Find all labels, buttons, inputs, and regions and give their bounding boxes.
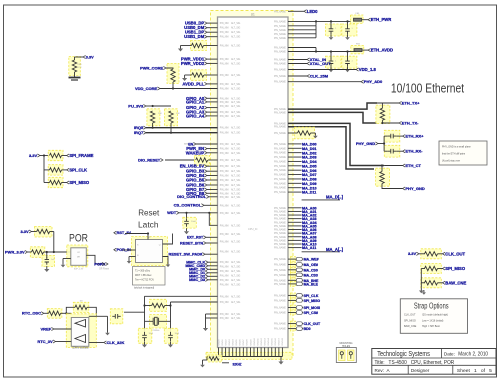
- wire: [44, 182, 50, 184]
- svg-text:ALT_SIG: ALT_SIG: [231, 196, 240, 199]
- svg-text:VDD_1.8: VDD_1.8: [359, 67, 377, 72]
- svg-text:CLK_OUT: CLK_OUT: [445, 251, 465, 256]
- capacitor C10: [42, 255, 55, 266]
- POR supervisor U2: [71, 248, 87, 265]
- svg-text:PIN_NM: PIN_NM: [220, 318, 229, 320]
- svg-text:PIN_NAME: PIN_NAME: [274, 108, 286, 111]
- svg-text:ALT_SIG: ALT_SIG: [231, 27, 240, 30]
- svg-text:ALT_SIG: ALT_SIG: [231, 184, 240, 187]
- capacitor C7: [183, 217, 197, 228]
- svg-text:XTAL_OUT: XTAL_OUT: [310, 61, 331, 66]
- capacitor C9: [164, 328, 178, 343]
- svg-text:OR Reset: OR Reset: [99, 267, 109, 270]
- wire: [330, 52, 332, 59]
- wire: [204, 74, 218, 76]
- svg-text:PIN_NAME: PIN_NAME: [274, 147, 286, 150]
- resistor R2: [167, 64, 179, 84]
- mounting hole MH1: [339, 350, 345, 361]
- resistor R15: [208, 355, 222, 362]
- resistor R21: [30, 247, 45, 257]
- wire: [152, 123, 154, 128]
- wire: [242, 348, 244, 357]
- svg-text:PIN_NAME: PIN_NAME: [274, 59, 286, 62]
- ferrite bead FB1: [351, 15, 364, 23]
- resistor R7: [48, 150, 63, 160]
- svg-text:Reset: Reset: [138, 208, 160, 218]
- net MA_D5: [288, 165, 302, 167]
- resistor R22 feedback: [73, 302, 89, 312]
- svg-text:PIN_NAME: PIN_NAME: [274, 299, 286, 302]
- svg-text:ALT_SIG: ALT_SIG: [231, 212, 240, 215]
- svg-text:32KHZ: 32KHZ: [233, 362, 243, 366]
- svg-text:(w/clock is stopped): (w/clock is stopped): [134, 286, 154, 289]
- svg-text:CLK_32K: CLK_32K: [107, 340, 125, 345]
- svg-text:PIN_NM: PIN_NM: [220, 63, 229, 65]
- svg-text:MA_OE#: MA_OE#: [304, 263, 318, 267]
- svg-text:ETH_TX-: ETH_TX-: [402, 120, 419, 125]
- net TX+: [399, 101, 402, 104]
- wire: [424, 282, 427, 284]
- svg-text:ALT_SIG: ALT_SIG: [231, 275, 240, 278]
- latch U3: [136, 240, 163, 263]
- svg-text:PIN_NM: PIN_NM: [220, 262, 229, 264]
- svg-text:PIN_NM: PIN_NM: [220, 285, 229, 287]
- resistor R4: [165, 109, 178, 126]
- net SPI_CLK: [291, 293, 296, 298]
- net CT: [403, 164, 406, 167]
- svg-text:ALT_SIG: ALT_SIG: [231, 266, 240, 269]
- net SPI_MISO: [291, 298, 296, 303]
- net MA_D0: [288, 143, 302, 145]
- resistor R1: [69, 57, 81, 76]
- ground: [423, 290, 425, 292]
- svg-text:PHY_GND is a small plane: PHY_GND is a small plane: [442, 146, 471, 149]
- wire: [228, 348, 230, 357]
- svg-text:PIN_NAME: PIN_NAME: [274, 132, 286, 135]
- svg-text:ALT_SIG: ALT_SIG: [231, 143, 240, 146]
- resistor R5: [194, 155, 209, 165]
- svg-text:ALT_SIG: ALT_SIG: [231, 313, 240, 316]
- net BAW_CNE: [443, 281, 446, 284]
- svg-text:ALT_SIG: ALT_SIG: [231, 241, 240, 244]
- net MA_A3: [288, 218, 302, 220]
- wire: [160, 88, 218, 90]
- wire: [363, 49, 369, 51]
- ground: [144, 342, 146, 345]
- svg-text:ALT_SIG: ALT_SIG: [231, 251, 240, 254]
- net SPI_MISO: [67, 181, 70, 184]
- svg-text:PIN_NAME: PIN_NAME: [274, 229, 286, 232]
- svg-text:March 2, 2010: March 2, 2010: [458, 352, 488, 358]
- svg-text:PIN_NM: PIN_NM: [220, 116, 229, 118]
- wire: [44, 169, 50, 171]
- net TX-: [399, 121, 402, 124]
- note box PHY_GND: [439, 141, 487, 165]
- svg-text:SPI_MISO: SPI_MISO: [69, 180, 90, 185]
- wire: [271, 348, 273, 357]
- net SPI_CS#: [291, 310, 296, 315]
- svg-text:GND12: GND12: [261, 337, 263, 345]
- svg-text:3.3V: 3.3V: [20, 229, 29, 234]
- svg-text:PIN_NM: PIN_NM: [220, 276, 229, 278]
- net MA_D7: [288, 174, 302, 176]
- svg-text:PIN_NM: PIN_NM: [220, 271, 229, 273]
- svg-text:PIN_NM: PIN_NM: [220, 205, 229, 207]
- svg-text:PIN_NM: PIN_NM: [220, 176, 229, 178]
- svg-text:Q: Q: [159, 245, 161, 247]
- net CLK_OUT: [291, 321, 296, 326]
- svg-text:3.3V: 3.3V: [86, 55, 94, 59]
- svg-text:PIN_NM: PIN_NM: [220, 234, 229, 236]
- wire: [209, 196, 218, 198]
- svg-text:GND2: GND2: [225, 339, 227, 346]
- wire: [232, 348, 234, 357]
- wire: [235, 348, 237, 357]
- svg-text:GND15: GND15: [272, 337, 274, 345]
- svg-text:ALT_SIG: ALT_SIG: [231, 58, 240, 61]
- resistor R11: [191, 70, 207, 81]
- ground: [69, 77, 81, 79]
- svg-text:PIN_NM: PIN_NM: [220, 84, 229, 86]
- wire: [89, 342, 104, 344]
- svg-text:PHY_GND: PHY_GND: [405, 186, 424, 191]
- svg-text:SPI_MISO: SPI_MISO: [445, 266, 466, 271]
- svg-text:SPI_MOSI: SPI_MOSI: [304, 306, 321, 310]
- resistor R20: [35, 227, 53, 238]
- wire: [219, 356, 283, 358]
- svg-text:ALT_SIG: ALT_SIG: [231, 22, 240, 25]
- wire: [75, 56, 84, 58]
- net SPI_MOSI: [291, 305, 296, 310]
- wire: [54, 328, 71, 330]
- svg-text:CPU_IC: CPU_IC: [248, 227, 258, 231]
- net CLK_OUT: [443, 252, 446, 255]
- net VBAT: [83, 55, 86, 58]
- svg-text:ETH_RX+: ETH_RX+: [405, 134, 424, 139]
- wire: [62, 155, 67, 157]
- svg-text:that the ETH diff pairs: that the ETH diff pairs: [442, 153, 466, 156]
- svg-text:ALT_SIG: ALT_SIG: [231, 279, 240, 282]
- svg-text:PIN_NM: PIN_NM: [220, 166, 229, 168]
- svg-text:PWR_CORE: PWR_CORE: [140, 65, 163, 70]
- svg-text:MA_D11: MA_D11: [302, 191, 316, 195]
- svg-text:ALT_SIG: ALT_SIG: [231, 295, 240, 298]
- wire: [146, 132, 218, 134]
- svg-text:MMC_D3: MMC_D3: [189, 278, 205, 282]
- svg-text:PIN_NAME: PIN_NAME: [274, 29, 286, 32]
- svg-text:GND0: GND0: [218, 339, 220, 346]
- svg-text:PIN_NAME: PIN_NAME: [274, 225, 286, 228]
- svg-text:PIN_NM: PIN_NM: [220, 89, 229, 91]
- svg-text:PIN_NAME: PIN_NAME: [274, 239, 286, 242]
- wire: [288, 20, 351, 22]
- net CLK25: [307, 74, 310, 77]
- wire: [146, 127, 218, 129]
- svg-text:PIN_NAME: PIN_NAME: [274, 37, 286, 40]
- svg-text:VREF: VREF: [41, 326, 52, 331]
- ground: [186, 228, 188, 231]
- net MA_D4: [288, 160, 302, 162]
- resistor R3: [147, 109, 160, 126]
- wire: [288, 127, 374, 169]
- svg-text:BAW_CNE: BAW_CNE: [404, 325, 417, 328]
- svg-text:3.3V: 3.3V: [29, 153, 38, 158]
- svg-text:ALT_SIG: ALT_SIG: [231, 105, 240, 108]
- capacitor C11: [110, 309, 123, 324]
- wire: [218, 348, 220, 357]
- wire: [419, 253, 425, 255]
- svg-text:PU_3V3: PU_3V3: [128, 103, 144, 108]
- svg-text:GND1: GND1: [222, 339, 224, 346]
- wire: [278, 348, 280, 357]
- wire: [171, 301, 218, 303]
- svg-text:PIN_NAME: PIN_NAME: [274, 75, 286, 78]
- svg-text:PHY_AD0: PHY_AD0: [364, 79, 383, 84]
- svg-text:PIN_NAME: PIN_NAME: [274, 243, 286, 246]
- net MA_A8: [288, 236, 302, 238]
- svg-text:ALT_SIG: ALT_SIG: [231, 115, 240, 118]
- svg-text:PIN_NM: PIN_NM: [220, 252, 229, 254]
- ground: [46, 266, 48, 269]
- svg-text:1M: 1M: [79, 300, 82, 302]
- svg-text:PIN_NAME: PIN_NAME: [274, 218, 286, 221]
- wire: [40, 155, 49, 157]
- svg-text:WDT: WDT: [167, 210, 177, 215]
- ground: [347, 35, 349, 38]
- svg-text:PIN_NAME: PIN_NAME: [274, 156, 286, 159]
- svg-text:PIN_NAME: PIN_NAME: [274, 33, 286, 36]
- svg-text:Rev: A: Rev: A: [375, 368, 391, 373]
- net BD0: [291, 326, 296, 331]
- svg-text:RESET_BTN: RESET_BTN: [180, 240, 203, 245]
- svg-text:PIN_NAME: PIN_NAME: [274, 178, 286, 181]
- svg-text:PIN_NAME: PIN_NAME: [274, 294, 286, 297]
- ground: [181, 45, 192, 47]
- ground: [330, 35, 332, 38]
- net MA_D6: [288, 169, 302, 171]
- net MA_D10: [288, 187, 302, 189]
- wire: [144, 296, 146, 333]
- wire: [384, 135, 387, 137]
- wire: [288, 132, 298, 134]
- svg-text:ALT_SIG: ALT_SIG: [231, 261, 240, 264]
- wire: [129, 256, 136, 258]
- capacitor C2: [342, 24, 357, 36]
- net RX-: [403, 150, 406, 153]
- net PR2: [114, 248, 117, 251]
- resistor R10: [191, 41, 207, 51]
- wire: [330, 21, 332, 26]
- svg-text:PIN_NAME: PIN_NAME: [274, 47, 286, 50]
- net PHY_AD0: [361, 80, 364, 83]
- wire: [206, 313, 218, 315]
- wire: [288, 112, 377, 123]
- svg-text:RTC_OSC: RTC_OSC: [22, 311, 41, 316]
- wire: [32, 231, 37, 233]
- svg-text:ALT_SIG: ALT_SIG: [231, 317, 240, 320]
- resistor R6: [150, 299, 167, 311]
- svg-text:Title: TS-4500 CPU, Ethern: Title: TS-4500 CPU, Ethernet, POR: [375, 360, 455, 366]
- wire: [170, 123, 172, 133]
- svg-text:PIN_NAME: PIN_NAME: [274, 143, 286, 146]
- wire: [209, 213, 217, 226]
- net MA_WE#: [291, 257, 296, 262]
- svg-text:SUP_1.8V: SUP_1.8V: [74, 269, 84, 271]
- svg-text:High = SPI Boot: High = SPI Boot: [422, 325, 440, 328]
- net MA_OE#: [291, 262, 296, 267]
- svg-text:ALT_SIG: ALT_SIG: [231, 179, 240, 182]
- svg-text:PIN_NAME: PIN_NAME: [274, 274, 286, 277]
- svg-text:PIN_NAME: PIN_NAME: [274, 165, 286, 168]
- svg-text:PIN_NAME: PIN_NAME: [274, 25, 286, 28]
- wire: [125, 234, 148, 240]
- svg-text:ALT_SIG: ALT_SIG: [231, 159, 240, 162]
- svg-text:PIN_NAME: PIN_NAME: [274, 323, 286, 326]
- wire: [257, 348, 259, 357]
- net MA_A1: [288, 210, 302, 212]
- wire: [260, 348, 262, 357]
- net MA_A2: [288, 214, 302, 216]
- svg-text:LED0: LED0: [307, 9, 318, 14]
- svg-text:PIN_NAME: PIN_NAME: [274, 160, 286, 163]
- svg-text:GND16: GND16: [275, 337, 277, 345]
- net MA_A11: [288, 247, 302, 249]
- net MA_A5: [288, 225, 302, 227]
- svg-text:PHY_GND: PHY_GND: [356, 141, 375, 146]
- svg-text:PIN_NAME: PIN_NAME: [274, 328, 286, 331]
- capacitor C1: [326, 24, 342, 36]
- svg-text:ALT_SIG: ALT_SIG: [231, 31, 240, 34]
- svg-text:PIN_NM: PIN_NM: [220, 302, 229, 304]
- svg-text:ALT_SIG: ALT_SIG: [231, 132, 240, 135]
- svg-text:ALT_SIG: ALT_SIG: [231, 233, 240, 236]
- svg-text:SPI_CLK: SPI_CLK: [304, 294, 319, 298]
- net MA_CS3: [291, 272, 296, 277]
- svg-text:GND3: GND3: [229, 339, 231, 346]
- crystal Y1: [150, 315, 167, 329]
- net VDD18: [288, 69, 356, 71]
- svg-text:PIN_NAME: PIN_NAME: [274, 269, 286, 272]
- wire: [179, 212, 218, 214]
- svg-text:ALT_SIG: ALT_SIG: [231, 204, 240, 207]
- ground: [420, 288, 422, 291]
- svg-text:PIN_NAME: PIN_NAME: [274, 152, 286, 155]
- wire: [288, 123, 384, 165]
- capacitor C4: [342, 56, 357, 68]
- svg-text:PIN_NM: PIN_NM: [220, 267, 229, 269]
- svg-text:Designer: Designer: [411, 368, 430, 373]
- svg-text:ALT_SIG: ALT_SIG: [231, 192, 240, 195]
- svg-text:EXT_RST: EXT_RST: [187, 236, 204, 240]
- ground: [347, 67, 349, 70]
- svg-text:ALT_SIG: ALT_SIG: [231, 148, 240, 151]
- net ETH_3.3V: [368, 18, 371, 21]
- net XTAL_IN: [307, 58, 310, 61]
- svg-text:GND18: GND18: [282, 337, 284, 345]
- wire: [221, 348, 223, 357]
- resistor R26: [421, 278, 442, 288]
- svg-text:RES: RES: [78, 64, 83, 66]
- svg-text:GND11: GND11: [257, 338, 259, 346]
- svg-text:Technologic Systems: Technologic Systems: [377, 351, 430, 358]
- ground: [62, 259, 64, 263]
- ferrite bead FB2: [351, 45, 364, 53]
- ground: [128, 259, 130, 262]
- net MA_A10: [288, 243, 302, 245]
- svg-text:PIN_NM: PIN_NM: [220, 37, 229, 39]
- net XTAL_OUT: [307, 62, 310, 65]
- svg-text:ALT_SIG: ALT_SIG: [231, 88, 240, 91]
- svg-text:PIN_NM: PIN_NM: [220, 190, 229, 192]
- net MA_BLE: [291, 282, 296, 287]
- svg-text:PIN_NM: PIN_NM: [220, 153, 229, 155]
- wire: [239, 348, 241, 357]
- svg-text:PIN_NM: PIN_NM: [220, 296, 229, 298]
- ground: [330, 67, 332, 70]
- svg-text:GND4: GND4: [233, 339, 235, 346]
- wire: [86, 255, 102, 264]
- svg-text:ALT_SIG: ALT_SIG: [231, 284, 240, 287]
- capacitor C6: [384, 145, 400, 157]
- svg-text:Sheet 1 of 5: Sheet 1 of 5: [457, 368, 492, 373]
- svg-text:MA_WE#: MA_WE#: [304, 258, 319, 262]
- wire: [264, 348, 266, 357]
- svg-text:PIN_NM: PIN_NM: [220, 193, 229, 195]
- svg-text:PIN_NM: PIN_NM: [220, 23, 229, 25]
- svg-text:ALT_SIG: ALT_SIG: [231, 36, 240, 39]
- wire: [288, 25, 316, 27]
- svg-text:ETH_PWR: ETH_PWR: [371, 17, 391, 22]
- wire: [166, 68, 173, 69]
- net MA_A7: [288, 232, 302, 234]
- wire: [124, 311, 145, 313]
- svg-text:GND14: GND14: [268, 337, 270, 345]
- svg-text:ALT_SIG: ALT_SIG: [231, 301, 240, 304]
- svg-text:GND8: GND8: [247, 339, 249, 346]
- resistor R12: [376, 105, 390, 123]
- svg-text:PIN_NM: PIN_NM: [220, 133, 229, 135]
- svg-text:PIN_NAME: PIN_NAME: [274, 182, 286, 185]
- svg-text:18pF: 18pF: [149, 333, 154, 335]
- resistor R24: [421, 249, 442, 259]
- svg-text:PIN_NAME: PIN_NAME: [274, 283, 286, 286]
- resistor R23: [47, 309, 62, 319]
- svg-text:PIN_NM: PIN_NM: [220, 102, 229, 104]
- net MA_A9: [288, 239, 302, 241]
- svg-text:PIN_NAME: PIN_NAME: [274, 207, 286, 210]
- svg-text:DIO_RESET: DIO_RESET: [138, 157, 161, 162]
- ground: [314, 133, 316, 136]
- svg-text:Low = 1X16 (initial): Low = 1X16 (initial): [422, 319, 443, 322]
- svg-text:MA_D[..]: MA_D[..]: [326, 195, 344, 200]
- wire: [44, 312, 49, 314]
- svg-text:ALT_SIG: ALT_SIG: [231, 175, 240, 178]
- svg-text:ALT_SIG: ALT_SIG: [231, 224, 240, 227]
- wire: [145, 305, 152, 307]
- wire: [367, 103, 382, 108]
- svg-text:PIN_NAME: PIN_NAME: [274, 307, 286, 310]
- wire: [63, 258, 71, 260]
- svg-text:PIN_NM: PIN_NM: [220, 280, 229, 282]
- svg-text:GPIO_A1: GPIO_A1: [186, 99, 205, 104]
- net MA_D9: [288, 182, 302, 184]
- svg-text:ALT_SIG: ALT_SIG: [231, 165, 240, 168]
- svg-text:PIN_NM: PIN_NM: [220, 128, 229, 130]
- wire: [288, 103, 377, 109]
- svg-text:T1 = 300 uSec: T1 = 300 uSec: [135, 271, 151, 273]
- POR supervisor U2 highlight: [67, 245, 88, 267]
- svg-text:RESET_SW_PAD#: RESET_SW_PAD#: [169, 252, 203, 257]
